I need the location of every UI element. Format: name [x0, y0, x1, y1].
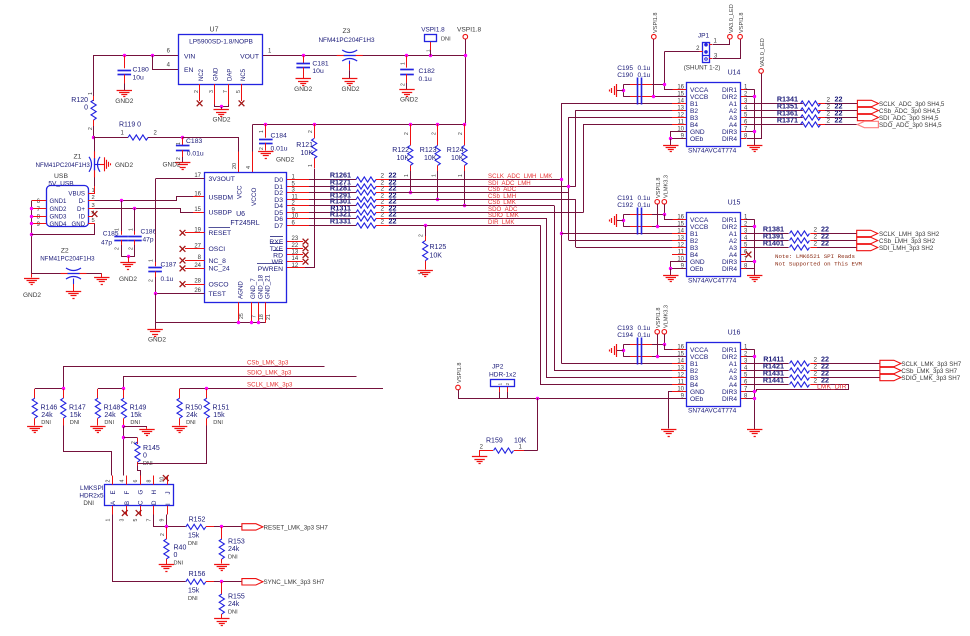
resistor R135 22 ohm [746, 110, 803, 112]
svg-text:U14: U14 [728, 70, 741, 77]
svg-text:2: 2 [814, 364, 818, 371]
wire JP1 pin1 to VA3.0_LED [709, 44, 712, 46]
wire VBUS stub [88, 193, 95, 195]
no-connect X header pin 10 [163, 475, 169, 481]
svg-text:B3: B3 [690, 375, 698, 382]
resistor R130 22 ohm [309, 205, 356, 207]
svg-text:8: 8 [146, 480, 152, 483]
svg-text:0: 0 [174, 552, 178, 559]
svg-text:DIR2: DIR2 [722, 94, 737, 101]
svg-text:1: 1 [128, 228, 134, 231]
resistor R132 22 ohm [309, 218, 356, 220]
wire net CSb_LMK [389, 205, 554, 207]
wire CSb_ADC vertical to U14 B3 and U15 B2 [568, 117, 570, 240]
svg-text:U6: U6 [236, 211, 245, 218]
resistor R148 24k DNI [97, 389, 99, 398]
wire DIR_LMK to U16 B4 [541, 226, 673, 385]
ground under R148 [90, 426, 105, 428]
pin stubs U6 left no-connects [185, 232, 205, 234]
svg-text:1: 1 [149, 259, 155, 262]
ground GND2 under C183 [175, 162, 190, 164]
svg-text:GND4: GND4 [50, 221, 68, 228]
svg-text:SCLK_ADC_LMH_LMK: SCLK_ADC_LMH_LMK [488, 173, 552, 180]
svg-text:DIR1: DIR1 [722, 217, 737, 224]
op-amp U15 SN74AVC4T774 box [687, 213, 741, 277]
svg-text:GND_18: GND_18 [257, 274, 264, 299]
svg-text:16: 16 [194, 192, 201, 198]
wire R124 to CSb_LMK [464, 171, 466, 206]
svg-text:OEb: OEb [690, 266, 704, 273]
svg-text:SDI_LMH_3p3 SH2: SDI_LMH_3p3 SH2 [879, 245, 934, 252]
resistor R146 24k DNI [34, 389, 36, 398]
svg-text:C195: C195 [617, 65, 633, 72]
wire SDIO_LMK to U16 B3 [547, 219, 673, 378]
power node VSPI1.8 at U14 [652, 34, 657, 39]
svg-text:25: 25 [239, 313, 245, 319]
svg-text:2: 2 [814, 227, 818, 234]
ground GND2 under C184 [258, 151, 273, 153]
wire JP1 pin3 to VSPI1.8 [709, 58, 712, 60]
capacitor C192 [623, 214, 664, 216]
svg-text:VOUT: VOUT [240, 53, 259, 60]
svg-text:H: H [151, 490, 158, 494]
svg-text:USBDP: USBDP [209, 210, 233, 217]
wire net SCLK_LMK_3p3 [180, 388, 383, 390]
resistor R128 22 ohm [309, 192, 356, 194]
svg-text:C182: C182 [419, 68, 435, 75]
svg-text:VSPI1.8: VSPI1.8 [457, 27, 482, 34]
svg-text:OEb: OEb [690, 136, 704, 143]
svg-text:2: 2 [128, 247, 134, 250]
svg-text:SCLK_LMH_3p3 SH2: SCLK_LMH_3p3 SH2 [879, 231, 940, 238]
svg-text:E: E [110, 490, 117, 494]
svg-text:1: 1 [498, 383, 504, 386]
svg-text:2: 2 [827, 118, 831, 125]
svg-text:2: 2 [308, 130, 314, 133]
svg-text:(SHUNT 1-2): (SHUNT 1-2) [684, 65, 721, 72]
svg-text:GND2: GND2 [294, 86, 312, 93]
svg-text:5V_USB: 5V_USB [48, 180, 74, 187]
svg-text:6: 6 [133, 480, 139, 483]
svg-text:U15: U15 [728, 200, 741, 207]
resistor R136 22 ohm [746, 117, 803, 119]
capacitor C182 [405, 54, 408, 57]
svg-text:GND: GND [690, 389, 705, 396]
svg-text:A3: A3 [729, 115, 737, 122]
svg-text:15k: 15k [130, 412, 142, 419]
svg-text:1: 1 [308, 164, 314, 167]
svg-text:R124: R124 [447, 147, 464, 154]
svg-text:LMKSPI: LMKSPI [80, 485, 104, 492]
capacitor C181 [302, 54, 305, 57]
svg-text:1: 1 [401, 62, 407, 65]
svg-text:15k: 15k [213, 412, 225, 419]
svg-text:SDI_ADC_3p0 SH4,5: SDI_ADC_3p0 SH4,5 [879, 115, 939, 122]
wire LMK_DIR net [757, 385, 849, 392]
svg-text:DNI: DNI [188, 541, 198, 547]
svg-text:R40: R40 [174, 545, 187, 552]
wire R148/R149 top tie [98, 388, 124, 390]
svg-text:DIR4: DIR4 [722, 266, 737, 273]
svg-text:HDR-1x2: HDR-1x2 [489, 372, 516, 379]
svg-text:R121: R121 [296, 142, 313, 149]
op-amp U6 FT245RL box [205, 173, 287, 303]
svg-text:A2: A2 [729, 368, 737, 375]
ground GND2 beside Z1 [95, 164, 100, 166]
svg-text:VCCO: VCCO [251, 188, 258, 206]
ground under R125 [418, 270, 433, 272]
port SCLK_LMH_3p3 [857, 230, 878, 236]
svg-text:VSPI1.8: VSPI1.8 [656, 307, 662, 328]
svg-text:B3: B3 [690, 115, 698, 122]
ferrite Z1 NFM41PC204F1H3 [94, 136, 96, 193]
svg-text:5: 5 [236, 90, 242, 93]
resistor R142 22 ohm [746, 370, 789, 372]
svg-text:B1: B1 [690, 101, 698, 108]
svg-text:7: 7 [252, 315, 258, 318]
svg-text:R149: R149 [130, 405, 147, 412]
svg-text:GND: GND [690, 259, 705, 266]
svg-text:VSPI1.8: VSPI1.8 [653, 12, 659, 33]
pin stubs left U14 [672, 89, 686, 91]
svg-text:3: 3 [209, 90, 215, 93]
svg-text:1: 1 [426, 49, 432, 52]
svg-text:USBDM: USBDM [209, 194, 234, 201]
no-connect X header pin 5 [136, 510, 142, 516]
svg-text:GND_7: GND_7 [250, 278, 257, 299]
capacitor C184 [264, 123, 267, 126]
svg-text:22: 22 [389, 217, 397, 226]
port SCLK_ADC_3p0 [857, 100, 878, 106]
svg-text:15: 15 [194, 207, 201, 213]
wire AGND bus [155, 294, 157, 323]
svg-text:GND: GND [690, 129, 705, 136]
svg-text:15k: 15k [188, 533, 200, 540]
svg-text:SN74AVC4T774: SN74AVC4T774 [688, 148, 737, 155]
ground GND2 under USB bus [31, 274, 33, 278]
port SCLK_LMK_3p3 [880, 360, 901, 366]
ground under Z2 center [73, 279, 75, 285]
ground under R155 [214, 618, 229, 620]
wire D- net [88, 200, 95, 202]
wire R146/R147 top tie [35, 388, 64, 390]
svg-text:C191: C191 [617, 195, 633, 202]
overline on RESET pin [209, 227, 231, 229]
svg-text:1: 1 [431, 174, 437, 177]
svg-text:0.1u: 0.1u [419, 76, 432, 83]
svg-text:D7: D7 [274, 223, 283, 230]
svg-text:2: 2 [401, 83, 407, 86]
wire R151 bottom to R145 [138, 426, 207, 464]
connector USB 5V_USB [47, 186, 89, 227]
svg-text:DIR4: DIR4 [722, 136, 737, 143]
port CSb_ADC_3p0 [857, 107, 878, 113]
ground at Z2 right [101, 274, 103, 278]
ground under U15 GND [663, 275, 678, 277]
svg-text:RESET: RESET [209, 230, 232, 237]
svg-text:NFM41PC204F1H3: NFM41PC204F1H3 [36, 162, 91, 169]
svg-text:SDIO_LMK_3p3: SDIO_LMK_3p3 [247, 369, 292, 376]
port SYNC_LMK_3p3 [242, 579, 263, 585]
svg-text:2: 2 [194, 90, 200, 93]
svg-text:GND2: GND2 [162, 162, 180, 169]
svg-text:0.1u: 0.1u [638, 202, 651, 209]
svg-text:A2: A2 [729, 238, 737, 245]
wire VSPI1.8 1.8V rail [253, 124, 466, 126]
wire R149 to ground [122, 425, 125, 428]
svg-text:1: 1 [176, 142, 182, 145]
svg-text:D-: D- [79, 198, 85, 205]
svg-text:C194: C194 [617, 332, 633, 339]
wire R122 to CSb_ADC [410, 171, 412, 193]
resistor R122 10K pull-up [409, 123, 412, 126]
svg-text:NFM41PC204F1H3: NFM41PC204F1H3 [40, 256, 95, 263]
wire JP1 pin2 to VCCA [700, 51, 703, 53]
power node VSPI1.8 at U15 [655, 200, 660, 205]
svg-text:C190: C190 [617, 72, 633, 79]
svg-text:1: 1 [115, 228, 121, 231]
wire OEb enable net [458, 390, 460, 398]
wire VBUS vertical to VIN rail [94, 56, 179, 101]
svg-text:F: F [124, 491, 131, 495]
svg-text:1: 1 [88, 92, 94, 95]
ground under R153 [214, 564, 229, 566]
svg-text:DNI: DNI [228, 555, 238, 561]
power node VA3.0_LED [728, 34, 733, 39]
svg-text:5: 5 [92, 218, 95, 224]
ferrite Z3 NFM41PC204F1H3 [337, 55, 345, 57]
svg-text:2: 2 [814, 357, 818, 364]
svg-text:D0: D0 [274, 177, 283, 184]
svg-text:B4: B4 [690, 122, 698, 129]
resistor R134 22 ohm [746, 103, 803, 105]
svg-text:USB: USB [54, 173, 68, 180]
svg-text:0.01u: 0.01u [187, 151, 204, 158]
svg-text:DNI: DNI [41, 420, 51, 426]
svg-text:OSCO: OSCO [209, 281, 229, 288]
wire header pin1 to SYNC net [113, 515, 186, 582]
svg-text:NC_8: NC_8 [209, 258, 227, 265]
svg-text:VCCA: VCCA [690, 347, 709, 354]
wire CSb_LMK to U16 B2 [555, 206, 673, 371]
svg-text:R153: R153 [228, 539, 245, 546]
svg-text:VCCB: VCCB [690, 94, 709, 101]
svg-text:R155: R155 [228, 594, 245, 601]
resistor R144 22 ohm [746, 384, 789, 386]
svg-text:SDIO_LMK: SDIO_LMK [488, 212, 519, 219]
svg-text:CSb_ADC: CSb_ADC [488, 186, 517, 193]
wire R121 to PWREN [305, 169, 315, 268]
svg-text:24k: 24k [228, 546, 240, 553]
svg-text:2: 2 [814, 234, 818, 241]
svg-text:DNI: DNI [441, 37, 451, 43]
svg-text:VCCA: VCCA [690, 217, 709, 224]
resistor R126 22 ohm [309, 179, 356, 181]
wire net CSb_ADC [389, 192, 569, 194]
svg-text:7: 7 [223, 90, 229, 93]
svg-text:2: 2 [404, 132, 410, 135]
svg-text:PWREN: PWREN [258, 266, 283, 273]
svg-text:DIR3: DIR3 [722, 389, 737, 396]
svg-text:7: 7 [146, 519, 152, 522]
capacitor C187 on 3V3OUT [155, 179, 157, 265]
wire header pin7 to RESET net [154, 515, 186, 527]
wire net SDIO_LMK [389, 218, 547, 220]
svg-text:JP1: JP1 [698, 33, 710, 40]
resistor R120 [93, 100, 95, 101]
svg-text:47p: 47p [143, 237, 154, 244]
svg-text:10u: 10u [312, 68, 324, 75]
power node VLMK3.3 at U15 [662, 200, 667, 205]
svg-text:DIR2: DIR2 [722, 354, 737, 361]
svg-text:DNI: DNI [174, 561, 184, 567]
wire C185/C186 join [121, 256, 135, 258]
ground GND2 under Z3 [342, 78, 357, 80]
ground under DIR tie [747, 145, 762, 147]
wire R123 to CSb_LMH [437, 171, 439, 199]
svg-text:B1: B1 [690, 231, 698, 238]
svg-text:2: 2 [160, 533, 166, 536]
wire R149 bottom to header pin F [123, 427, 125, 476]
svg-text:VSPI1.8: VSPI1.8 [656, 177, 662, 198]
svg-text:Note: LMK6521 SPI Reads: Note: LMK6521 SPI Reads [775, 253, 855, 260]
capacitor C183 [181, 136, 184, 139]
svg-text:2: 2 [431, 132, 437, 135]
svg-text:R148: R148 [104, 405, 121, 412]
port SDI_ADC_3p0 [857, 114, 878, 120]
svg-text:R147: R147 [69, 405, 86, 412]
resistor R140 22 ohm [746, 247, 789, 249]
svg-text:A4: A4 [729, 122, 737, 129]
resistor R138 22 ohm [746, 233, 789, 235]
capacitor C180 [123, 54, 126, 57]
ground under DIR tie U15 [747, 275, 762, 277]
op-amp U14 SN74AVC4T774 box [687, 83, 741, 147]
svg-text:GND2: GND2 [212, 117, 230, 124]
svg-text:2: 2 [827, 104, 831, 111]
pin stubs header top [112, 476, 114, 485]
svg-text:ID: ID [79, 214, 86, 221]
svg-text:2: 2 [827, 97, 831, 104]
svg-text:4: 4 [246, 166, 252, 169]
svg-text:GND: GND [71, 221, 85, 228]
svg-text:GND2: GND2 [23, 292, 41, 299]
ground under U16 GND [661, 429, 676, 431]
svg-text:GND2: GND2 [148, 337, 166, 344]
svg-text:Z3: Z3 [343, 28, 351, 35]
svg-text:C192: C192 [617, 202, 633, 209]
ground under R146 [27, 426, 42, 428]
power node VSPI1.8 at U16 [655, 330, 660, 335]
svg-text:C184: C184 [271, 133, 287, 140]
svg-text:GND3: GND3 [50, 214, 68, 221]
wire net SCLK_ADC_LMH_LMK [389, 179, 561, 181]
resistor R152 15k DNI [186, 524, 206, 529]
svg-text:B2: B2 [690, 368, 698, 375]
svg-text:2: 2 [381, 199, 385, 206]
svg-text:28: 28 [194, 279, 201, 285]
ground GND2 under U7 [214, 109, 229, 111]
svg-text:15k: 15k [188, 588, 200, 595]
resistor R125 10K pulldown [424, 224, 427, 227]
svg-text:CSb_LMK_3p3: CSb_LMK_3p3 [247, 359, 289, 366]
wire net SDO_ADC [389, 212, 583, 214]
svg-text:R146: R146 [41, 405, 58, 412]
svg-text:D4: D4 [274, 203, 283, 210]
svg-text:VCC: VCC [237, 185, 244, 199]
svg-text:C186: C186 [141, 229, 157, 236]
no-connect X on U15 A4 [746, 252, 752, 258]
wire USB GND pin loop [32, 224, 95, 235]
no-connect X header pin 3 [122, 510, 128, 516]
ground under U14 GND [663, 145, 678, 147]
svg-text:0.1u: 0.1u [638, 195, 651, 202]
ground GND2 under C182 [399, 89, 414, 91]
wire net DIR_LMK [389, 225, 541, 227]
port RESET_LMK_3p3 [242, 524, 263, 530]
svg-text:2: 2 [88, 127, 94, 130]
resistor R159 10K [537, 398, 539, 451]
svg-text:NC5: NC5 [241, 68, 247, 81]
resistor R145 0 DNI [124, 437, 138, 439]
svg-text:A1: A1 [729, 101, 737, 108]
svg-text:GND2: GND2 [119, 276, 137, 283]
resistor R131 22 ohm [309, 212, 356, 214]
svg-text:D: D [151, 500, 158, 505]
pin stubs left U15 [672, 219, 686, 221]
svg-text:R156: R156 [189, 571, 206, 578]
svg-text:DNI: DNI [213, 420, 223, 426]
svg-text:U7: U7 [210, 27, 219, 34]
svg-text:3: 3 [119, 519, 125, 522]
ground GND2 under C180 [117, 90, 132, 92]
svg-text:18: 18 [259, 314, 265, 320]
svg-text:DIR_LMK: DIR_LMK [488, 219, 514, 226]
svg-text:R120: R120 [71, 97, 88, 104]
svg-text:0: 0 [84, 105, 88, 112]
svg-text:VSPI1.8: VSPI1.8 [739, 12, 745, 33]
svg-text:RESET_LMK_3p3 SH7: RESET_LMK_3p3 SH7 [264, 524, 329, 531]
pin stubs under U7 [199, 84, 201, 101]
svg-text:GND2: GND2 [50, 206, 68, 213]
resistor R150 24k DNI [179, 389, 181, 398]
port CSb_LMH_3p3 [857, 237, 878, 243]
resistor R147 15k DNI [63, 389, 65, 398]
resistor R133 22 ohm [309, 225, 356, 227]
svg-text:VSPI1.8: VSPI1.8 [457, 362, 463, 383]
ground under R40 [159, 564, 174, 566]
svg-text:A2: A2 [729, 108, 737, 115]
ground under R159 [479, 451, 481, 457]
wire D+ net [88, 208, 95, 210]
wire rail to U6 VCCO [252, 125, 254, 152]
wire net SDIO_LMK_3p3 [124, 377, 357, 389]
resistor R123 10K pull-up [436, 123, 439, 126]
svg-text:DNI: DNI [188, 596, 198, 602]
svg-text:OSCI: OSCI [209, 246, 226, 253]
wire net CSb_LMH [389, 199, 576, 201]
svg-text:R150: R150 [185, 405, 202, 412]
svg-text:15k: 15k [70, 412, 82, 419]
svg-text:B2: B2 [690, 108, 698, 115]
svg-text:5: 5 [133, 519, 139, 522]
svg-text:FT245RL: FT245RL [230, 220, 259, 227]
svg-text:DNI: DNI [228, 610, 238, 616]
svg-text:Not Supported on This EVM: Not Supported on This EVM [775, 261, 862, 268]
svg-text:I: I [165, 503, 172, 505]
wire SCLK vertical bus [561, 103, 563, 363]
wire net SDI_ADC_LMH [389, 186, 576, 188]
